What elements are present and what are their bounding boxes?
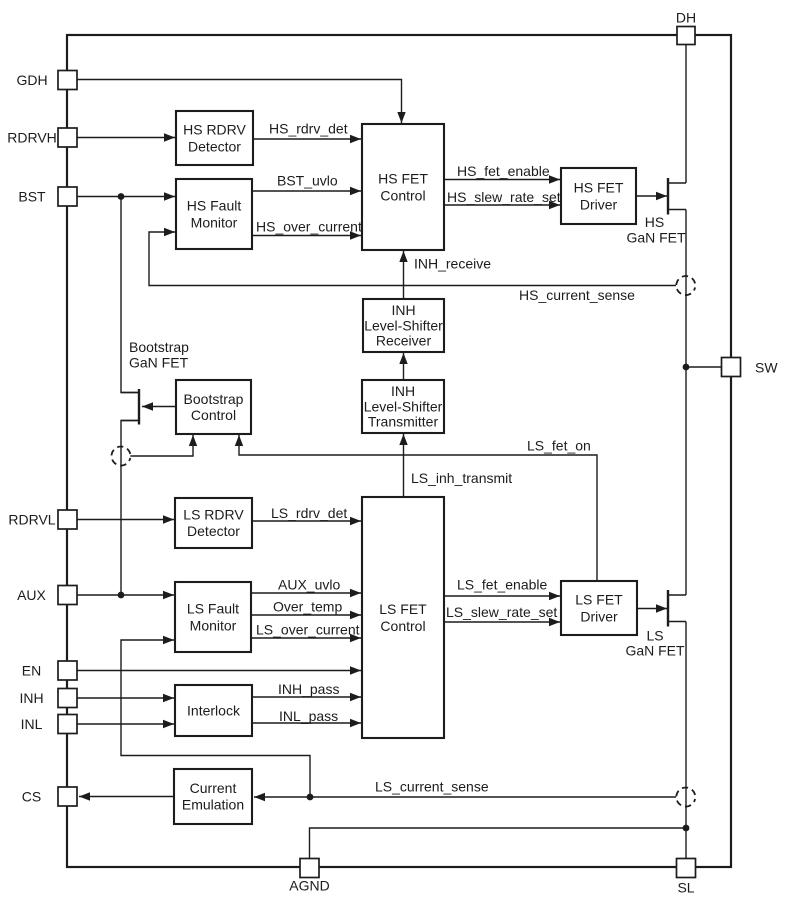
svg-text:Level-Shifter: Level-Shifter [364, 398, 443, 414]
block INH Level-Shifter Receiver [363, 299, 444, 352]
wire HS_slew_rate_set [444, 201, 560, 209]
svg-text:SL: SL [677, 880, 694, 896]
svg-text:BST: BST [18, 188, 46, 204]
wire Over_temp [251, 611, 361, 619]
svg-text:Driver: Driver [580, 609, 618, 625]
svg-text:LS_inh_transmit: LS_inh_transmit [411, 470, 512, 486]
svg-text:SW: SW [755, 360, 778, 376]
svg-text:INH: INH [391, 302, 415, 318]
pin INH [19, 689, 77, 708]
svg-text:HS_over_current: HS_over_current [256, 219, 362, 235]
svg-text:HS Fault: HS Fault [187, 198, 242, 214]
transistor LS GaN FET [668, 590, 686, 627]
wire DH to HS GaN FET drain [685, 45, 687, 183]
svg-text:INL_pass: INL_pass [279, 708, 338, 724]
svg-text:LS FET: LS FET [379, 601, 427, 617]
block LS FET Control [362, 497, 444, 738]
block LS Fault Monitor [175, 582, 251, 652]
wire HS_fet_enable [444, 175, 560, 183]
svg-text:LS_current_sense: LS_current_sense [375, 779, 489, 795]
wire HS GaN FET source to SW junction and LS GaN FET drain [685, 210, 687, 596]
wire BST to HS Fault Monitor [77, 192, 175, 200]
wire INH to Interlock [77, 694, 174, 702]
svg-text:Bootstrap: Bootstrap [129, 339, 189, 355]
pin DH [676, 10, 696, 45]
svg-text:LS_fet_on: LS_fet_on [527, 438, 591, 454]
wire INH_receive [399, 251, 407, 299]
svg-text:AGND: AGND [289, 878, 329, 894]
svg-text:HS_rdrv_det: HS_rdrv_det [269, 121, 348, 137]
svg-text:Bootstrap: Bootstrap [184, 391, 244, 407]
svg-text:Driver: Driver [580, 197, 618, 213]
wire LS GaN FET source through sensor to SL pin [685, 622, 687, 859]
pin GDH [16, 71, 77, 90]
junction AUX branch [118, 592, 125, 599]
svg-text:Receiver: Receiver [376, 333, 432, 349]
wire LS FET Driver output to LS GaN FET gate [637, 604, 667, 612]
wire LS_inh_transmit [399, 434, 407, 497]
svg-text:Control: Control [191, 407, 236, 423]
outer boundary frame (device outline) [67, 35, 731, 867]
svg-text:HS FET: HS FET [574, 180, 624, 196]
svg-text:INH_receive: INH_receive [414, 256, 491, 272]
pin RDRVL [8, 510, 77, 529]
svg-text:Monitor: Monitor [190, 618, 237, 634]
svg-text:CS: CS [22, 788, 41, 804]
svg-text:INL: INL [21, 716, 43, 732]
wire bootstrap sense to Bootstrap Control [130, 435, 197, 456]
pin SL [677, 859, 696, 896]
wire LS_slew_rate_set [444, 618, 560, 626]
wire INH_pass [252, 693, 361, 701]
pin INL [21, 715, 77, 734]
wire BST branch to Bootstrap FET drain [121, 197, 139, 393]
transistor HS GaN FET [668, 178, 686, 215]
block Interlock [175, 685, 252, 736]
svg-text:HS FET: HS FET [378, 171, 428, 187]
pin AGND [289, 859, 329, 894]
svg-text:Interlock: Interlock [187, 703, 241, 719]
pin EN [22, 661, 77, 680]
block HS FET Driver [561, 168, 636, 224]
svg-text:HS_slew_rate_set: HS_slew_rate_set [447, 189, 561, 205]
block LS FET Driver [561, 581, 637, 635]
wire HS_rdrv_det [253, 135, 361, 143]
svg-text:Monitor: Monitor [191, 215, 238, 231]
svg-text:GDH: GDH [16, 72, 47, 88]
block LS RDRV Detector [175, 498, 252, 548]
junction SW node [683, 364, 690, 371]
wire HS FET Driver output to HS GaN FET gate [636, 192, 667, 200]
block Bootstrap Control [176, 380, 251, 434]
pin SW [722, 358, 779, 377]
junction BST branch [118, 193, 125, 200]
svg-text:AUX: AUX [17, 587, 46, 603]
svg-text:Detector: Detector [187, 523, 240, 539]
wire Bootstrap Control to Bootstrap FET gate [142, 402, 175, 410]
wire INL_pass [252, 719, 361, 727]
svg-text:INH: INH [19, 690, 43, 706]
wire GDH to HS FET Control top [77, 80, 406, 124]
wire SL node to AGND [310, 828, 687, 858]
junction LS current sense branch [307, 794, 314, 801]
svg-text:GaN FET: GaN FET [625, 643, 685, 659]
svg-text:INH_pass: INH_pass [278, 681, 339, 697]
wire Current Emulation to CS [79, 792, 174, 800]
block HS Fault Monitor [176, 179, 252, 249]
wire AUX_uvlo [251, 589, 361, 597]
sensor HS current sense [675, 274, 698, 297]
wire AUX to LS Fault Monitor [77, 591, 174, 599]
pin BST [18, 187, 77, 206]
svg-text:RDRVL: RDRVL [8, 511, 55, 527]
block HS RDRV Detector [176, 111, 253, 165]
svg-text:Emulation: Emulation [182, 797, 244, 813]
svg-text:Over_temp: Over_temp [273, 599, 342, 615]
svg-text:AUX_uvlo: AUX_uvlo [278, 577, 340, 593]
svg-text:LS_fet_enable: LS_fet_enable [457, 577, 548, 593]
svg-text:EN: EN [22, 662, 41, 678]
pin AUX [17, 586, 77, 605]
wire HS_over_current [252, 231, 361, 239]
svg-text:Detector: Detector [188, 139, 241, 155]
svg-text:INH: INH [391, 383, 415, 399]
wire LS_current_sense to Current Emulation [254, 793, 676, 801]
sensor bootstrap current sense [110, 445, 133, 468]
wire LS_fet_on [235, 435, 597, 580]
block INH Level-Shifter Transmitter [362, 380, 444, 433]
wire INH level shift TX to RX [399, 353, 407, 380]
wire AUX branch through bootstrap sensor to Bootstrap FET source [121, 421, 139, 596]
svg-text:Level-Shifter: Level-Shifter [364, 317, 443, 333]
svg-text:HS_current_sense: HS_current_sense [519, 287, 635, 303]
wire LS current sense branch to LS Fault Monitor [121, 636, 310, 797]
svg-text:LS FET: LS FET [575, 592, 623, 608]
wire RDRVL to LS RDRV Detector [77, 515, 174, 523]
svg-text:BST_uvlo: BST_uvlo [277, 173, 338, 189]
svg-text:LS_slew_rate_set: LS_slew_rate_set [446, 604, 557, 620]
transistor Bootstrap GaN FET [121, 389, 139, 425]
block Current Emulation [174, 769, 252, 824]
wire LS_fet_enable [444, 592, 560, 600]
wire SW node to SW pin [686, 366, 722, 368]
svg-text:LS_rdrv_det: LS_rdrv_det [271, 505, 347, 521]
block HS FET Control U-HSCTRL [362, 124, 444, 250]
sensor LS current sense [675, 786, 698, 809]
svg-text:HS: HS [645, 214, 664, 230]
svg-text:LS_over_current: LS_over_current [256, 622, 360, 638]
wire EN to LS FET Control [77, 666, 361, 674]
pin RDRVH [7, 128, 77, 147]
svg-text:Control: Control [380, 188, 425, 204]
wire HS_current_sense to HS Fault Monitor [149, 228, 676, 286]
wire LS_over_current [251, 634, 361, 642]
svg-text:LS: LS [646, 628, 663, 644]
wire INL to Interlock [77, 720, 174, 728]
svg-text:HS RDRV: HS RDRV [183, 122, 246, 138]
svg-text:DH: DH [676, 10, 696, 26]
svg-text:HS_fet_enable: HS_fet_enable [457, 163, 550, 179]
svg-text:RDRVH: RDRVH [7, 129, 57, 145]
svg-text:LS Fault: LS Fault [187, 601, 239, 617]
svg-text:Current: Current [190, 780, 237, 796]
wire RDRVH to HS RDRV Detector [77, 133, 175, 141]
junction SL node [683, 825, 690, 832]
wire LS_rdrv_det [252, 517, 361, 525]
svg-text:GaN FET: GaN FET [626, 230, 686, 246]
svg-text:GaN FET: GaN FET [129, 355, 189, 371]
svg-text:Control: Control [380, 618, 425, 634]
wire BST_uvlo [252, 187, 361, 195]
svg-text:Transmitter: Transmitter [368, 414, 439, 430]
svg-text:LS RDRV: LS RDRV [183, 507, 244, 523]
pin CS [22, 787, 77, 806]
